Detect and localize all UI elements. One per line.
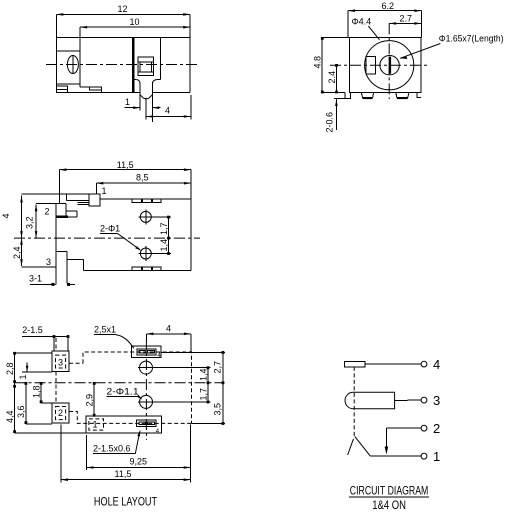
svg-text:2-1.5: 2-1.5 [22,325,43,335]
dimension 4.4 [5,383,86,433]
dashed body outline [69,352,191,423]
dimension 3-1 [29,274,75,286]
svg-text:4,4: 4,4 [5,410,15,423]
CIRCUIT DIAGRAM title [349,484,429,498]
dimension 4 [146,95,191,120]
svg-text:1,4: 1,4 [198,368,208,381]
right foot [396,92,409,99]
label 2-phi1.1 [106,387,142,400]
dimension 2-1.5 [22,325,69,351]
dimension 2.7 / 3.5 (right outer) [161,351,225,425]
svg-text:1,4: 1,4 [159,239,169,252]
dimension 3.6 [16,382,52,424]
pin 4 switch contact [345,361,366,367]
inner hole circle [380,55,399,74]
svg-text:2: 2 [45,207,50,217]
svg-text:12: 12 [118,4,128,14]
svg-text:CIRCUIT DIAGRAM: CIRCUIT DIAGRAM [350,484,429,498]
dimension 11.5 (bottom) [61,425,191,483]
centerline [14,237,200,239]
svg-text:1&4 ON: 1&4 ON [372,498,406,512]
svg-text:2,7: 2,7 [212,361,222,374]
svg-text:1,7: 1,7 [198,388,208,401]
svg-text:2-Φ1.1: 2-Φ1.1 [106,387,138,397]
svg-text:2.7: 2.7 [400,13,413,23]
svg-text:3-1: 3-1 [29,274,42,284]
svg-text:2,4: 2,4 [12,246,22,259]
mounting hole ellipse [67,56,78,74]
pin 2 terminal circle [421,425,427,431]
label 2-phi1 [100,224,142,251]
top slot pin 4 [131,346,161,359]
svg-text:Φ1.65x7(Length): Φ1.65x7(Length) [439,33,504,43]
dimension 10 line [80,26,190,37]
dimension 4 (vertical) [1,196,23,238]
dimension 2.4 (vertical) [12,238,23,266]
svg-text:2: 2 [433,421,440,436]
side window rectangle [366,57,376,74]
dimension 1 (small) [18,363,52,380]
center pin [140,84,152,122]
dimension 2.4 [327,64,338,93]
pin 2 square hole [52,403,69,423]
svg-text:2-Φ1: 2-Φ1 [100,224,120,234]
dimension 2.8 [5,352,52,383]
wire pin4 [365,363,421,365]
wire pin3 [395,399,422,401]
pin 3 square hole [52,351,69,371]
svg-text:4: 4 [165,106,170,116]
svg-text:4: 4 [166,323,171,333]
hole circle lower [138,395,154,408]
svg-text:1,7: 1,7 [159,222,169,235]
dimension 12 line [56,13,190,37]
dimension 6.2 [348,1,421,37]
svg-text:9,25: 9,25 [130,457,148,467]
svg-text:4: 4 [433,357,440,372]
svg-text:2,5x1: 2,5x1 [94,325,116,335]
body outline [349,37,421,92]
svg-text:3,5: 3,5 [212,403,222,416]
svg-text:6.2: 6.2 [382,1,395,11]
barrel circle phi4.4 [365,41,414,90]
svg-text:2-1.5x0.6: 2-1.5x0.6 [93,444,131,454]
dimension 1.8 [31,382,52,403]
extension line for 2.4 [22,266,56,268]
dashed actuator line [353,367,355,437]
svg-text:4: 4 [1,213,11,218]
hole circle lower [138,246,153,261]
dimension 4 (top right) [146,323,191,352]
svg-text:3: 3 [58,358,63,368]
pin 3 terminal circle [421,397,427,403]
wire pin2 with arrow [385,428,422,454]
dimension 3.2 [25,205,38,238]
internal partition lines [56,37,160,92]
center pin bar [389,57,391,74]
bottom terminal tabs [56,86,101,93]
dimension 8.5 [96,173,191,194]
dashed centerline between squares [55,338,57,403]
pin 1 terminal strip [22,194,101,206]
pin 4 terminal circle [421,361,427,367]
svg-text:4.8: 4.8 [313,56,323,69]
svg-text:2.4: 2.4 [327,71,337,84]
top edge slots [132,199,161,202]
svg-text:1: 1 [102,186,107,196]
pin notch [133,80,160,84]
left foot [361,92,374,99]
dimension 9.25 [87,435,191,470]
svg-text:8,5: 8,5 [136,173,149,183]
terminal 2 structure [36,203,77,217]
svg-text:3,6: 3,6 [16,405,26,418]
dimension 1.4 / 1.7 (right inner) [153,366,211,403]
svg-text:1: 1 [433,449,440,464]
label 2-1.5x0.6 [93,430,140,454]
label 2.5x1 [94,325,134,349]
svg-text:3: 3 [46,257,51,267]
sleeve contact (pin 3) [345,392,395,408]
svg-text:10: 10 [130,17,140,27]
dimension 11.5 [59,160,191,203]
horizontal centerline [15,382,225,384]
right corner tab [417,92,421,97]
svg-text:1: 1 [18,374,28,379]
vertical centerline [388,23,390,99]
spring contact box [138,57,154,75]
body outline [56,37,190,92]
svg-text:11,5: 11,5 [117,160,134,170]
body left edge [55,203,57,284]
svg-text:2,8: 2,8 [5,362,15,375]
dimension 1 [124,97,160,109]
dimension 4.8 [313,37,350,93]
svg-text:2: 2 [58,408,63,418]
left corner tab [345,92,351,98]
dimension 2-0.6 [324,99,345,133]
vertical centerline [145,339,147,440]
centerline [46,64,199,66]
svg-text:3,2: 3,2 [25,216,35,229]
bottom slot [86,416,161,435]
hole circle upper [138,209,153,224]
wire pin1 [370,455,421,457]
horizontal centerline [330,64,428,66]
svg-text:Φ4.4: Φ4.4 [352,17,372,27]
svg-text:2-0.6: 2-0.6 [324,112,334,133]
label phi 4.4 [352,17,380,40]
body outline top/right/bottom [83,199,191,270]
svg-text:HOLE LAYOUT: HOLE LAYOUT [94,495,158,509]
hole circle upper [138,361,154,374]
svg-text:1: 1 [93,420,98,430]
dimension 2.7 [389,13,421,24]
svg-text:2,9: 2,9 [85,394,95,407]
dimension 2.9 [85,382,96,417]
bottom edge slots [132,267,161,270]
svg-text:1: 1 [125,97,130,107]
dimension 1.7 / 1.4 [151,216,171,255]
svg-text:11,5: 11,5 [115,469,132,479]
svg-text:3: 3 [433,393,440,408]
label phi 1.65x7 Length [400,33,504,59]
pin 1 terminal circle [421,453,427,459]
switch lever [348,436,371,456]
svg-text:1,8: 1,8 [31,385,41,398]
terminal 3 leg [56,251,84,283]
